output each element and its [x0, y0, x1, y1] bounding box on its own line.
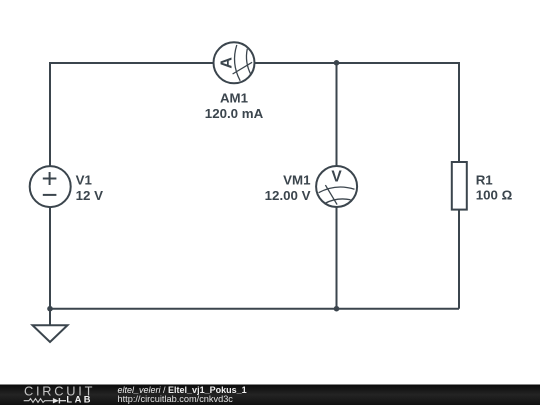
ammeter AM1 [214, 42, 255, 83]
svg-text:VM1: VM1 [283, 172, 311, 187]
wire top-right horizontal segment [255, 62, 460, 64]
wire left vertical lower [49, 207, 51, 309]
node junction dot bottom (voltmeter tap) [334, 306, 340, 312]
wire right vertical upper [458, 62, 460, 162]
svg-text:100 Ω: 100 Ω [476, 188, 513, 203]
svg-text:LAB: LAB [66, 395, 93, 405]
svg-text:120.0 mA: 120.0 mA [205, 106, 264, 121]
svg-text:V: V [331, 169, 342, 186]
wire voltmeter branch lower [336, 207, 338, 309]
wire top-left horizontal segment [50, 62, 214, 64]
logo diode [53, 398, 66, 403]
wire left vertical upper [49, 62, 51, 166]
voltmeter VM1 [316, 166, 357, 207]
svg-text:12.00 V: 12.00 V [265, 188, 311, 203]
footer bar [0, 385, 540, 406]
ground [33, 309, 68, 342]
node junction dot ground tap [47, 306, 53, 312]
svg-text:AM1: AM1 [220, 91, 249, 106]
svg-text:R1: R1 [476, 172, 494, 187]
wire bottom horizontal [50, 308, 459, 310]
logo resistor zigzag [24, 399, 53, 403]
svg-text:V1: V1 [76, 172, 93, 187]
voltage source V1 [30, 166, 71, 207]
wire voltmeter branch upper [336, 63, 338, 166]
svg-text:12 V: 12 V [76, 188, 103, 203]
wire right vertical lower [458, 210, 460, 309]
svg-text:http://circuitlab.com/cnkvd3c: http://circuitlab.com/cnkvd3c [118, 394, 234, 404]
node junction dot top (voltmeter tap) [334, 60, 340, 66]
svg-text:A: A [219, 57, 236, 69]
resistor R1 [452, 162, 467, 210]
